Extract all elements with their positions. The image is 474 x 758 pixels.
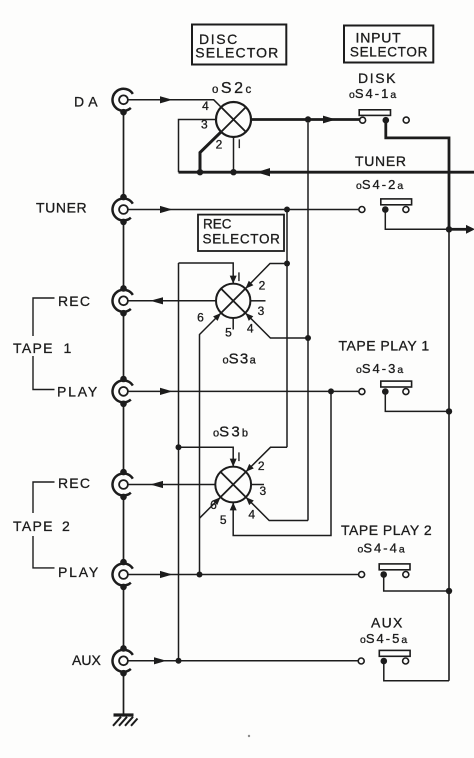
svg-text:oS4-2a: oS4-2a xyxy=(356,177,403,192)
svg-text:TAPE2: TAPE2 xyxy=(13,518,71,534)
svg-text:4: 4 xyxy=(248,508,255,522)
svg-text:2: 2 xyxy=(216,138,223,152)
svg-text:PLAY: PLAY xyxy=(57,384,99,400)
svg-text:3: 3 xyxy=(258,304,265,318)
svg-text:oS4-1a: oS4-1a xyxy=(349,86,396,101)
svg-text:SELECTOR: SELECTOR xyxy=(350,44,428,59)
svg-text:4: 4 xyxy=(247,322,254,336)
svg-text:DISK: DISK xyxy=(358,70,397,86)
svg-text:AUX: AUX xyxy=(371,615,404,631)
svg-text:TUNER: TUNER xyxy=(355,153,407,169)
svg-text:TAPE1: TAPE1 xyxy=(13,340,73,356)
svg-text:3: 3 xyxy=(201,118,208,132)
svg-text:2: 2 xyxy=(259,279,266,293)
svg-text:l: l xyxy=(238,450,241,464)
svg-text:PLAY: PLAY xyxy=(58,564,100,580)
svg-text:l: l xyxy=(238,270,241,284)
svg-text:TUNER: TUNER xyxy=(36,200,87,216)
svg-text:SELECTOR: SELECTOR xyxy=(195,44,279,60)
svg-text:DA: DA xyxy=(74,94,102,110)
svg-text:REC: REC xyxy=(58,293,91,309)
svg-text:2: 2 xyxy=(258,459,265,473)
svg-text:5: 5 xyxy=(220,513,227,527)
svg-text:SELECTOR: SELECTOR xyxy=(203,232,281,247)
svg-text:6: 6 xyxy=(210,498,217,512)
svg-text:3: 3 xyxy=(259,484,266,498)
svg-text:5: 5 xyxy=(225,325,232,339)
svg-text:4: 4 xyxy=(202,99,209,113)
svg-text:oS4-4a: oS4-4a xyxy=(358,541,405,556)
svg-text:oS4-3a: oS4-3a xyxy=(356,361,403,376)
svg-text:AUX: AUX xyxy=(72,652,101,668)
svg-text:TAPE PLAY 2: TAPE PLAY 2 xyxy=(341,522,432,538)
svg-text:REC: REC xyxy=(58,475,91,491)
svg-text:TAPE PLAY 1: TAPE PLAY 1 xyxy=(339,338,430,354)
svg-text:6: 6 xyxy=(197,311,204,325)
svg-text:l: l xyxy=(238,137,241,151)
svg-text:oS4-5a: oS4-5a xyxy=(360,631,407,646)
svg-text:INPUT: INPUT xyxy=(356,29,402,45)
svg-text:REC: REC xyxy=(203,217,232,232)
